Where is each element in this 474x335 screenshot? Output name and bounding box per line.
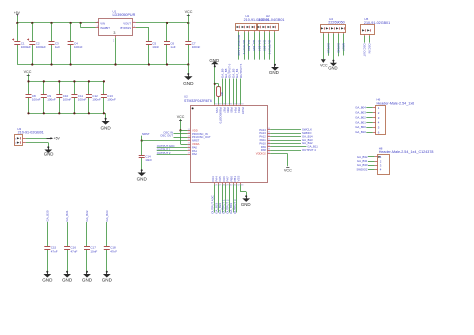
svg-text:PB6: PB6 — [226, 107, 230, 113]
svg-text:OSC OUT: OSC OUT — [160, 134, 173, 138]
svg-text:GND: GND — [82, 277, 93, 282]
svg-text:GND: GND — [44, 151, 54, 156]
svg-text:NRST: NRST — [342, 43, 346, 51]
svg-text:PA12: PA12 — [259, 135, 266, 139]
svg-text:GA_B26: GA_B26 — [247, 40, 251, 51]
svg-text:NRST: NRST — [192, 139, 200, 143]
svg-text:10nF: 10nF — [152, 45, 159, 49]
svg-text:PA9: PA9 — [261, 145, 266, 149]
svg-text:GND: GND — [42, 277, 53, 282]
svg-text:PA2: PA2 — [192, 152, 197, 156]
svg-text:Header-Male-2.54_1x4_C124378: Header-Male-2.54_1x4_C124378 — [379, 150, 434, 154]
svg-text:1uF: 1uF — [55, 45, 60, 49]
svg-text:VOUT: VOUT — [123, 21, 131, 25]
svg-text:1uF: 1uF — [170, 45, 175, 49]
svg-text:100nF: 100nF — [192, 45, 201, 49]
svg-text:VCC: VCC — [320, 64, 328, 68]
svg-text:INHIBIT: INHIBIT — [100, 26, 110, 30]
svg-text:OUTPUT 3: OUTPUT 3 — [233, 199, 237, 214]
svg-text:GA_B04: GA_B04 — [355, 106, 366, 110]
svg-text:100nF: 100nF — [47, 98, 56, 102]
svg-text:GA_B23: GA_B23 — [263, 40, 267, 51]
svg-text:+5V: +5V — [54, 137, 61, 141]
svg-text:GA_B22: GA_B22 — [85, 210, 89, 221]
svg-text:10nF: 10nF — [90, 249, 97, 253]
svg-text:SWDIO2: SWDIO2 — [356, 167, 367, 171]
svg-text:VSS: VSS — [237, 176, 241, 182]
svg-text:VDD: VDD — [192, 128, 198, 132]
svg-text:GA_B10: GA_B10 — [355, 130, 366, 134]
svg-text:PA0: PA0 — [192, 145, 197, 149]
svg-text:47nF: 47nF — [110, 249, 117, 253]
svg-text:GND: GND — [241, 202, 251, 207]
svg-text:VDDIO2: VDDIO2 — [256, 152, 267, 156]
svg-text:PA14: PA14 — [259, 128, 266, 132]
svg-text:PB4: PB4 — [233, 107, 237, 113]
svg-text:GND: GND — [328, 66, 337, 71]
svg-text:GA_B03: GA_B03 — [355, 111, 366, 115]
svg-text:NRST: NRST — [142, 132, 150, 136]
svg-text:BYPASS: BYPASS — [120, 26, 131, 30]
svg-text:100nF: 100nF — [74, 45, 83, 49]
svg-text:PF0/OSC_IN: PF0/OSC_IN — [192, 132, 208, 136]
svg-text:PA13: PA13 — [259, 131, 266, 135]
svg-text:GND: GND — [269, 70, 280, 75]
svg-text:VCC: VCC — [177, 115, 185, 119]
svg-text:OSC IN: OSC IN — [368, 43, 372, 53]
svg-text:GA_B23: GA_B23 — [105, 210, 109, 221]
svg-text:PF1/OSC_OUT: PF1/OSC_OUT — [192, 135, 211, 139]
svg-text:210-91-04GB01: 210-91-04GB01 — [258, 18, 284, 22]
svg-text:OUTPUT 4: OUTPUT 4 — [302, 148, 316, 152]
svg-text:OUTPUT 7: OUTPUT 7 — [268, 40, 272, 55]
svg-text:100nF: 100nF — [63, 98, 72, 102]
svg-text:OUTPUT 3 ADC: OUTPUT 3 ADC — [237, 35, 241, 56]
svg-text:GND: GND — [209, 58, 219, 63]
svg-text:GND: GND — [183, 81, 194, 86]
svg-text:PA8: PA8 — [261, 148, 266, 152]
svg-text:1000uF: 1000uF — [36, 45, 46, 49]
svg-text:GA_B21: GA_B21 — [65, 210, 69, 221]
svg-text:100nF: 100nF — [78, 98, 87, 102]
svg-text:SWCLK: SWCLK — [326, 43, 330, 53]
svg-text:22269050: 22269050 — [328, 20, 344, 24]
svg-text:100nF: 100nF — [92, 98, 101, 102]
svg-text:100nF: 100nF — [107, 98, 116, 102]
svg-text:PA10: PA10 — [259, 141, 266, 145]
svg-text:GND: GND — [62, 277, 73, 282]
svg-text:47nF: 47nF — [51, 249, 58, 253]
svg-text:GND: GND — [137, 177, 148, 182]
svg-text:GA_B20: GA_B20 — [45, 210, 49, 221]
svg-text:210-91-02GB01: 210-91-02GB01 — [18, 130, 44, 134]
svg-text:GA_B02: GA_B02 — [355, 115, 366, 119]
svg-text:SWDIO: SWDIO — [336, 43, 340, 54]
svg-text:LD39050PUR: LD39050PUR — [113, 13, 136, 17]
svg-text:VCC: VCC — [284, 169, 292, 173]
svg-text:OSC OUT: OSC OUT — [363, 43, 367, 56]
svg-text:VCC: VCC — [24, 70, 32, 74]
svg-text:10nF: 10nF — [145, 158, 152, 162]
svg-text:GA_B25: GA_B25 — [252, 40, 256, 51]
svg-text:VDDA: VDDA — [192, 142, 200, 146]
svg-text:PB3: PB3 — [237, 107, 241, 113]
svg-text:47nF: 47nF — [71, 249, 78, 253]
svg-text:GA_B24: GA_B24 — [258, 40, 262, 51]
svg-text:PB5: PB5 — [230, 107, 234, 113]
svg-text:PB7: PB7 — [222, 107, 226, 113]
svg-text:VCC: VCC — [185, 10, 193, 14]
svg-text:Header-Male-2.54_1x6: Header-Male-2.54_1x6 — [377, 101, 415, 105]
svg-text:GND: GND — [100, 125, 111, 130]
svg-text:10K: 10K — [222, 91, 224, 96]
svg-text:100nF: 100nF — [32, 98, 41, 102]
svg-text:3: 3 — [113, 31, 115, 35]
svg-text:PA15: PA15 — [241, 107, 245, 114]
svg-text:PA11: PA11 — [260, 138, 267, 142]
svg-text:VSS: VSS — [215, 107, 219, 113]
svg-text:GND: GND — [102, 277, 113, 282]
svg-text:PA1: PA1 — [192, 149, 197, 153]
svg-text:VIN: VIN — [100, 21, 105, 25]
svg-text:GA_B01: GA_B01 — [355, 120, 366, 124]
svg-text:GA_B00: GA_B00 — [355, 125, 366, 129]
svg-text:PB8/BOOT0: PB8/BOOT0 — [219, 107, 223, 123]
svg-text:1000uF: 1000uF — [21, 45, 31, 49]
svg-text:OUTPUT 5: OUTPUT 5 — [239, 63, 243, 78]
svg-text:STM32F042R6T6: STM32F042R6T6 — [184, 99, 212, 103]
svg-text:OUTPUT 3: OUTPUT 3 — [242, 40, 246, 55]
